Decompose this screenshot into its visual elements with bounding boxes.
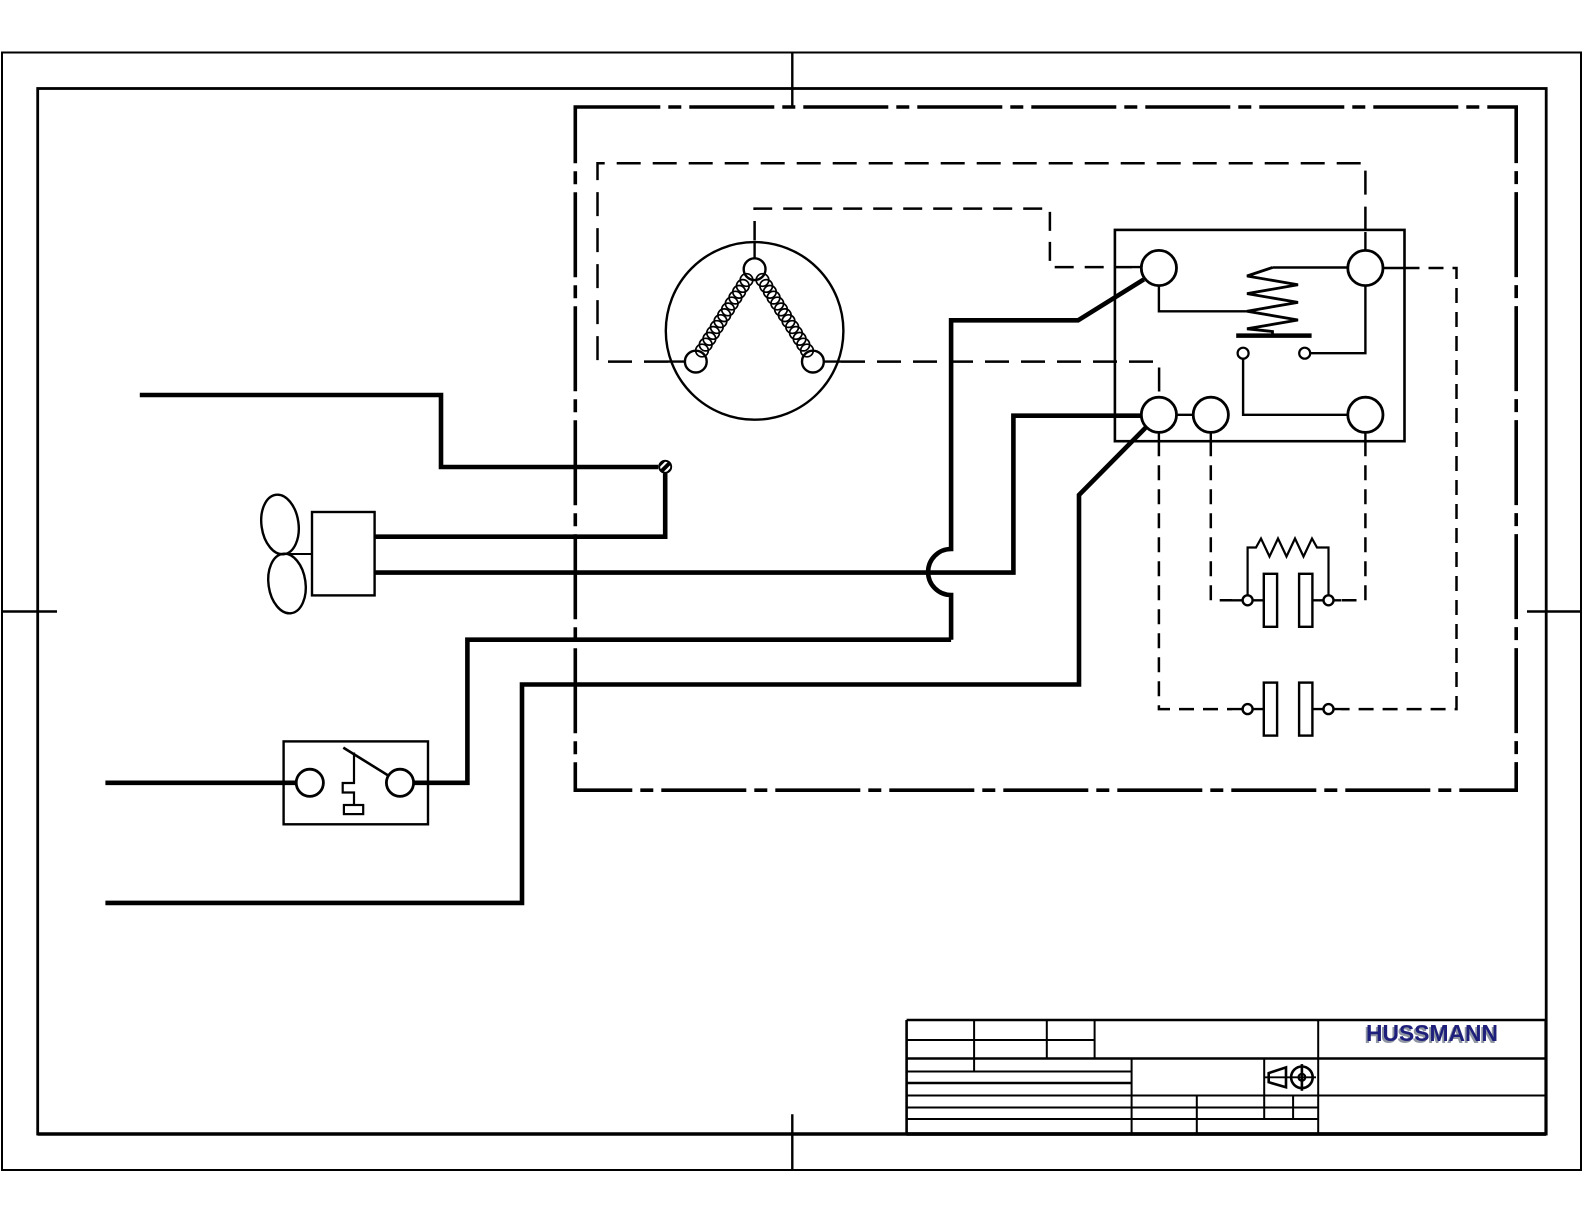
svg-text:HUSSMANN: HUSSMANN	[1366, 1020, 1498, 1046]
